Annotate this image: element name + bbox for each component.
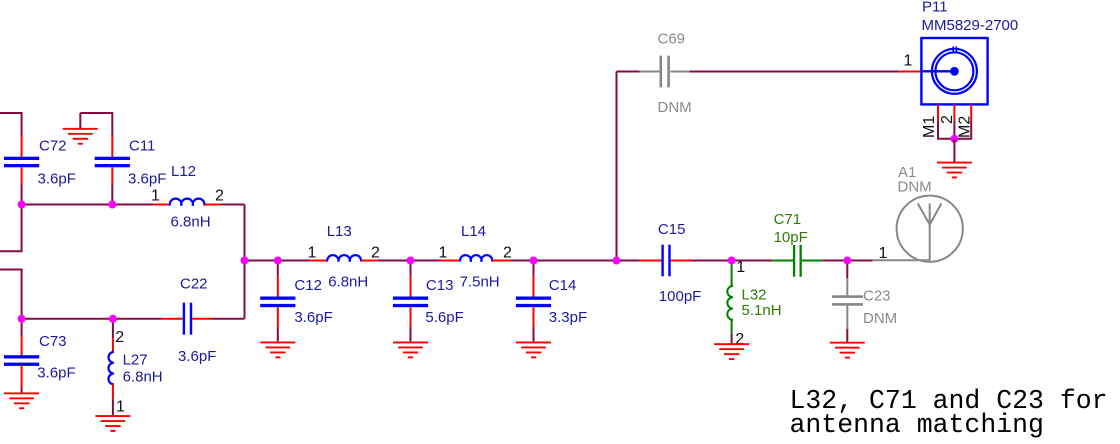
svg-text:1: 1 [308, 245, 317, 262]
wire P11 to ground [953, 139, 955, 162]
junction C13 [407, 257, 415, 265]
svg-text:DNM: DNM [863, 310, 897, 327]
ground L27 [95, 415, 130, 432]
ground C12 [260, 342, 295, 359]
wire C72 to junction [21, 184, 23, 204]
antenna A1 [873, 196, 963, 262]
wire row C left [22, 318, 162, 320]
svg-text:C11: C11 [129, 138, 155, 155]
junction C69 branch [613, 257, 621, 265]
wire row C right [213, 318, 245, 320]
capacitor C11 [95, 136, 130, 185]
wire C69 to P11 [690, 71, 899, 73]
svg-text:1: 1 [736, 259, 745, 276]
svg-text:C12: C12 [294, 277, 322, 294]
capacitor C71 [772, 245, 822, 277]
svg-text:2: 2 [939, 115, 956, 124]
capacitor C23 [832, 261, 863, 343]
svg-text:C73: C73 [39, 333, 67, 350]
junction C72 [18, 201, 26, 209]
wire row A segment 1 [245, 260, 311, 262]
wire row A segment 3 [511, 260, 640, 262]
svg-text:3.6pF: 3.6pF [38, 171, 76, 188]
junction mid vertical row A [241, 257, 249, 265]
junction P11 pins [950, 135, 958, 143]
ground L32 [714, 343, 749, 360]
connector P11 [899, 38, 988, 104]
svg-text:DNM: DNM [898, 179, 932, 196]
svg-text:1: 1 [116, 399, 125, 416]
wire vertical to C69 row [616, 72, 618, 261]
capacitor C15 [640, 245, 692, 277]
svg-text:C69: C69 [658, 31, 686, 48]
svg-text:C15: C15 [658, 221, 686, 238]
svg-text:5.1nH: 5.1nH [742, 302, 782, 319]
svg-text:P11: P11 [922, 0, 948, 16]
svg-text:1: 1 [439, 245, 448, 262]
svg-text:M1: M1 [921, 116, 938, 138]
junction C14 [530, 257, 538, 265]
P11 pin 2 wire [953, 104, 955, 121]
wire row A segment 4 [692, 260, 772, 262]
inductor L32 [727, 261, 733, 335]
svg-text:2: 2 [115, 329, 124, 346]
svg-text:L12: L12 [171, 163, 196, 180]
wire vertical mid [244, 205, 246, 319]
svg-text:2: 2 [215, 188, 224, 205]
capacitor C13 [393, 261, 428, 342]
svg-text:6.8nH: 6.8nH [171, 214, 211, 231]
inductor L12 [154, 199, 220, 206]
svg-text:C71: C71 [774, 211, 802, 228]
ground C73 [4, 392, 39, 409]
ground P11 [937, 162, 972, 179]
junction C12 [274, 257, 282, 265]
svg-text:MM5829-2700: MM5829-2700 [922, 17, 1019, 34]
svg-text:7.5nH: 7.5nH [460, 274, 500, 291]
svg-text:C23: C23 [863, 288, 891, 305]
svg-text:100pF: 100pF [659, 288, 702, 305]
junction C23 [843, 257, 851, 265]
wire C11 to junction [111, 184, 113, 204]
ground top-left [63, 113, 98, 145]
wire C73 stem [21, 319, 23, 337]
wire L27 stem [112, 319, 114, 339]
svg-text:C22: C22 [180, 276, 208, 293]
inductor L13 [310, 255, 378, 261]
svg-text:2: 2 [371, 245, 380, 262]
svg-text:2: 2 [503, 245, 512, 262]
P11 pin M2 wire [970, 104, 972, 121]
svg-text:1: 1 [879, 245, 888, 262]
svg-text:L32: L32 [742, 287, 767, 304]
svg-text:10pF: 10pF [774, 229, 808, 246]
ground C23 [830, 342, 865, 359]
svg-text:C14: C14 [549, 277, 577, 294]
wire C69 row left [617, 71, 640, 73]
svg-text:3.3pF: 3.3pF [549, 309, 587, 326]
inductor L27 [108, 338, 113, 399]
svg-text:1: 1 [151, 188, 160, 205]
wire top-left horizontal into C72 [0, 113, 22, 136]
svg-text:C72: C72 [39, 138, 67, 155]
junction C11 [108, 201, 116, 209]
junction L27 [109, 315, 117, 323]
capacitor C72 [4, 136, 39, 185]
wire row B left [22, 204, 154, 206]
wire L27 to ground [112, 399, 114, 416]
svg-text:3.6pF: 3.6pF [294, 309, 332, 326]
junction L32 [728, 257, 736, 265]
svg-text:2: 2 [735, 331, 744, 348]
svg-text:L27: L27 [123, 352, 148, 369]
svg-text:5.6pF: 5.6pF [425, 309, 463, 326]
P11 pin M1 wire [937, 104, 939, 121]
wire L32 to ground [731, 334, 733, 344]
inductor L14 [441, 255, 511, 261]
svg-text:M2: M2 [957, 116, 974, 138]
junction C73 [18, 315, 26, 323]
wire row A segment 2 [378, 260, 441, 262]
capacitor C69 [640, 56, 690, 88]
svg-text:C13: C13 [426, 277, 454, 294]
ground C13 [393, 342, 428, 359]
svg-text:3.6pF: 3.6pF [37, 365, 75, 382]
svg-text:antenna matching: antenna matching [790, 410, 1044, 440]
ground C14 [516, 342, 551, 359]
wire stub lower-left [0, 270, 22, 319]
wire stub upper-left [0, 205, 22, 252]
capacitor C22 [162, 303, 213, 335]
svg-text:3.6pF: 3.6pF [128, 171, 166, 188]
capacitor C12 [260, 261, 295, 342]
capacitor C14 [516, 261, 551, 342]
svg-text:DNM: DNM [658, 99, 692, 116]
svg-text:3.6pF: 3.6pF [178, 348, 216, 365]
svg-text:L14: L14 [461, 223, 486, 240]
svg-text:1: 1 [904, 53, 913, 70]
wire C73 to ground [21, 388, 23, 393]
svg-text:6.8nH: 6.8nH [123, 369, 163, 386]
wire ground to C11 top [80, 113, 112, 136]
wire row B right [220, 204, 245, 206]
svg-text:6.8nH: 6.8nH [328, 274, 368, 291]
svg-text:L13: L13 [327, 223, 352, 240]
wire row A segment 5 [822, 260, 872, 262]
capacitor C73 [4, 336, 39, 387]
